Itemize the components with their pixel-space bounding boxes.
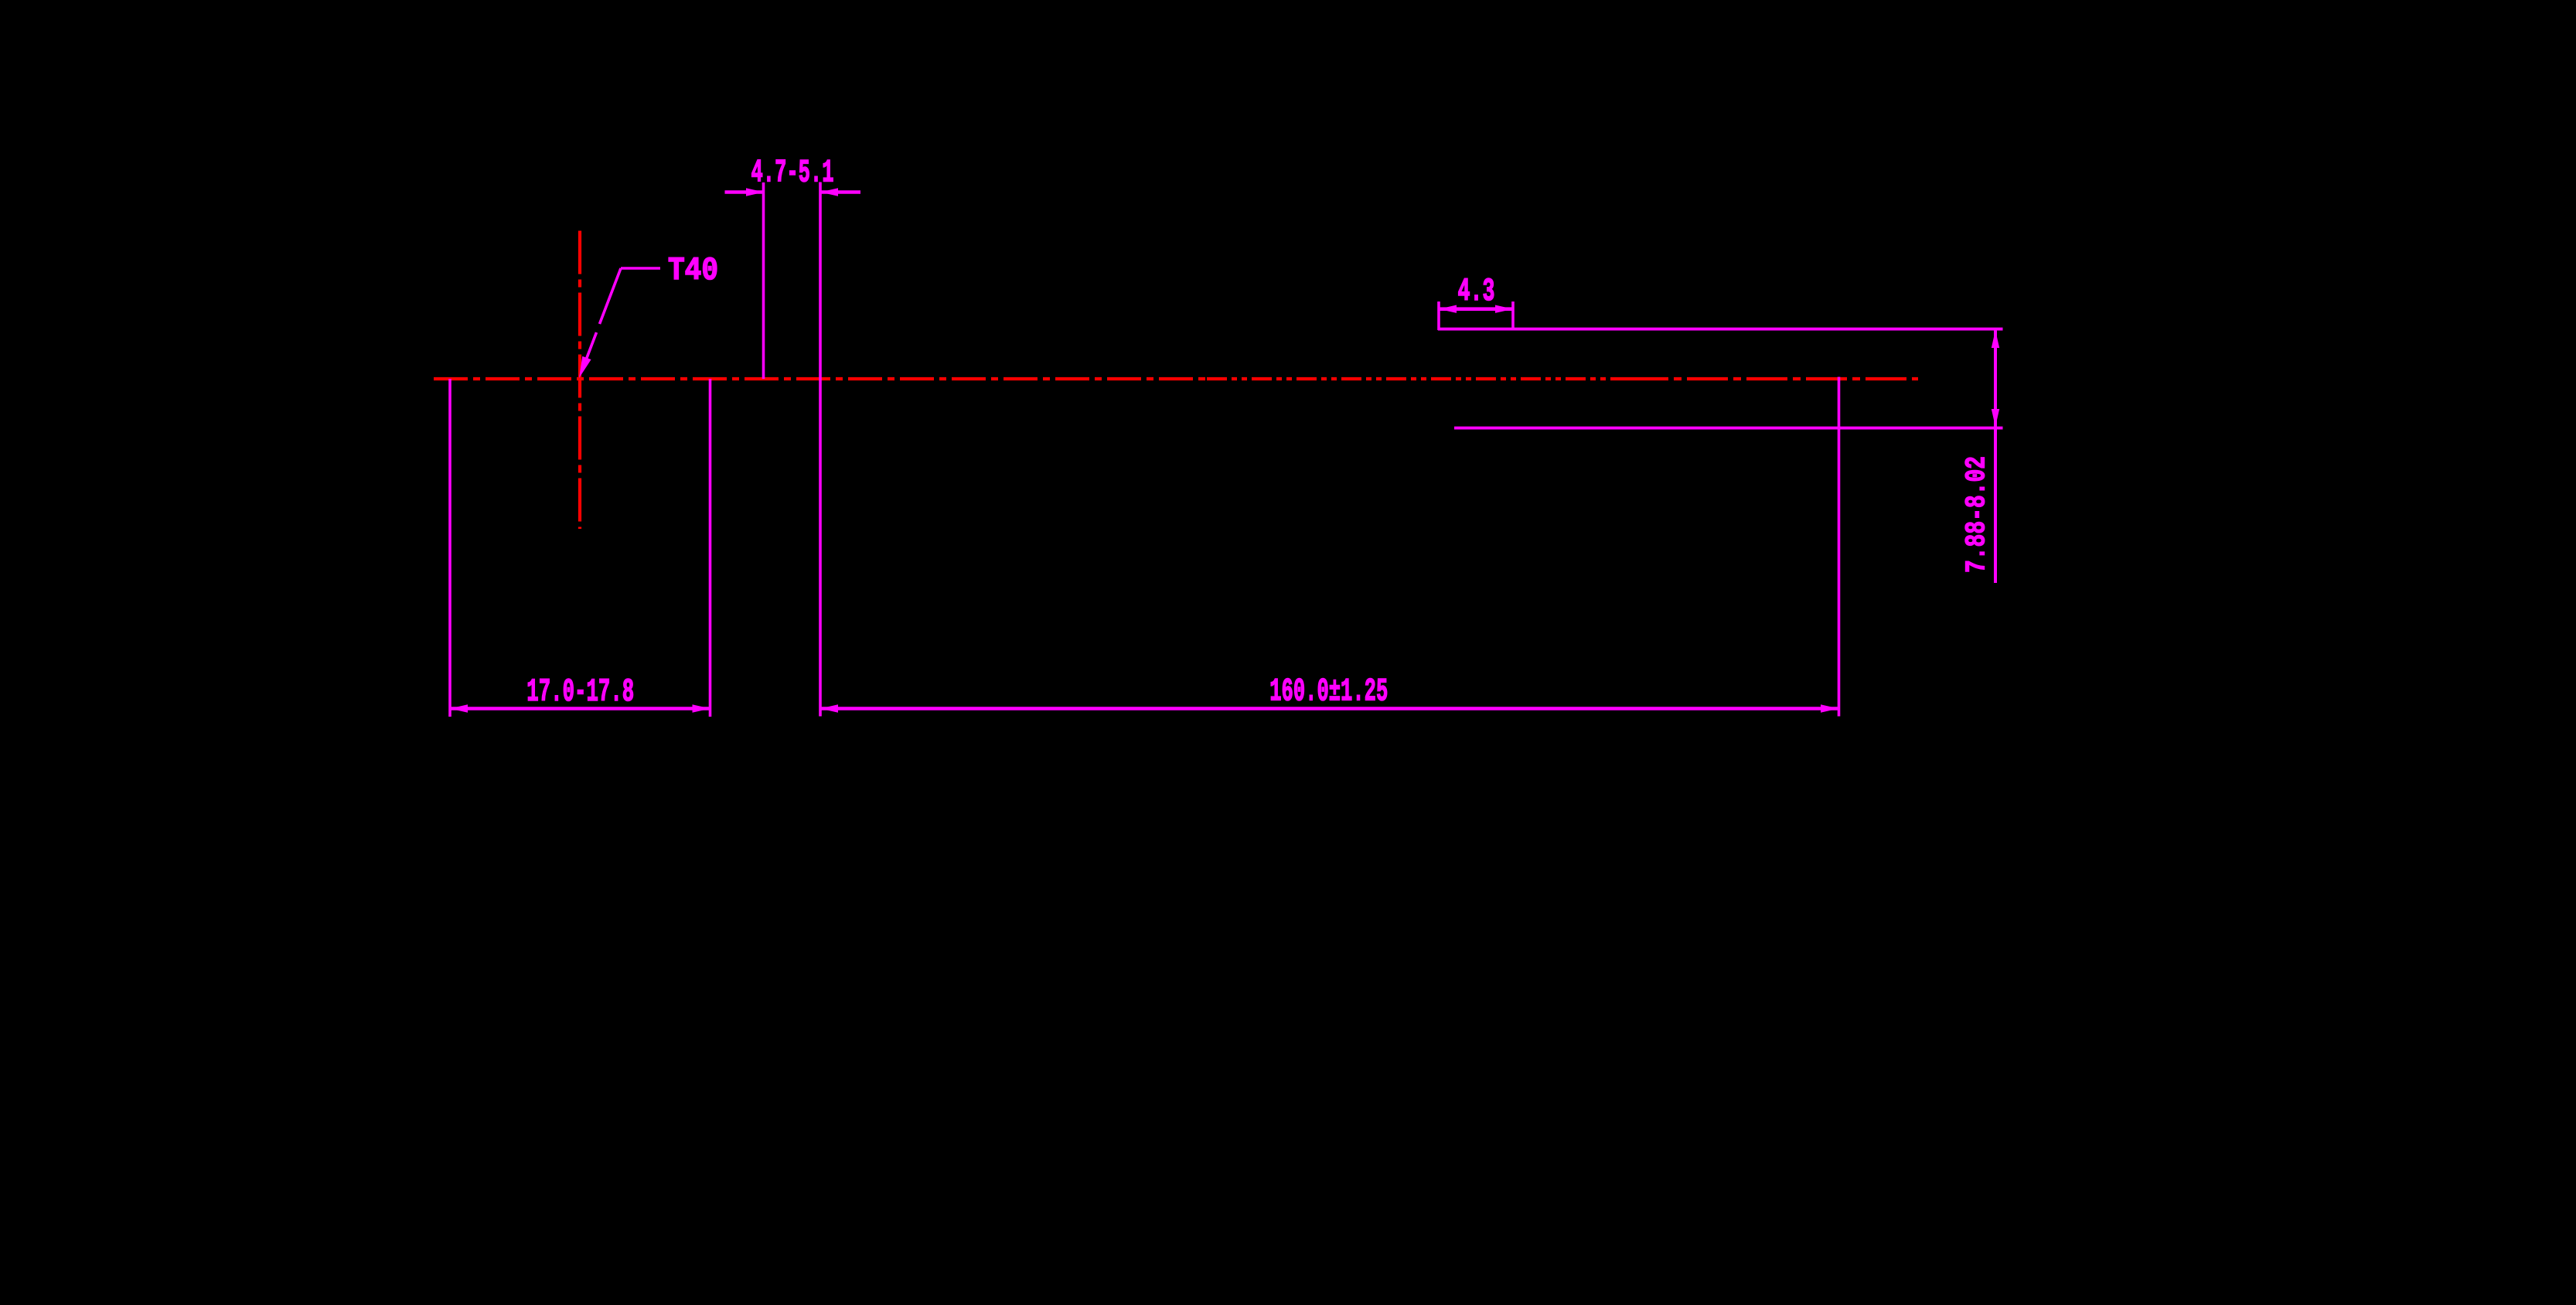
svg-text:17.0-17.8: 17.0-17.8 bbox=[526, 673, 634, 710]
svg-text:4.7-5.1: 4.7-5.1 bbox=[751, 155, 834, 192]
svg-text:160.0±1.25: 160.0±1.25 bbox=[1269, 673, 1388, 710]
svg-text:7.88-8.02: 7.88-8.02 bbox=[1961, 456, 1993, 573]
svg-text:4.3: 4.3 bbox=[1458, 273, 1495, 310]
svg-text:T40: T40 bbox=[668, 252, 718, 289]
